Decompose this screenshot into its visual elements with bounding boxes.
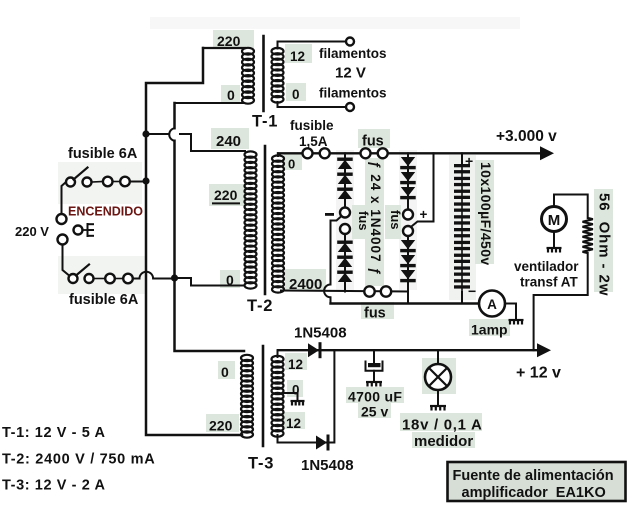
svg-text:220: 220 [209, 418, 233, 434]
wire [115, 278, 123, 280]
lamp 18v 0,1A medidor [425, 364, 451, 390]
ground capacitor 4700uF [366, 382, 382, 387]
fuse fus top terminal 2 [378, 148, 388, 158]
wire to E symbol [83, 229, 88, 231]
diode 1N4007 string right tri y=187 [400, 187, 416, 199]
diode 1N4007 string right tri y=240 [400, 240, 416, 252]
svg-text:T-1: 12 V - 5 A: T-1: 12 V - 5 A [2, 425, 106, 441]
wire T-3 secondary 12 top tap [277, 350, 279, 357]
transformer T-2 primary winding [245, 151, 257, 288]
wire T-1 secondary 0 to filaments [278, 102, 347, 107]
wire T-1 secondary 12 to filaments [278, 42, 347, 49]
svg-text:transf AT: transf AT [520, 275, 579, 290]
arrowhead + 12 v [537, 343, 551, 357]
wire col1 lower [344, 234, 346, 292]
arrowhead +3.000 v [540, 146, 554, 160]
svg-text:240: 240 [216, 133, 241, 150]
wire fuse F1 to bus L [130, 181, 146, 183]
svg-text:18v / 0,1 A: 18v / 0,1 A [402, 417, 483, 434]
svg-text:0: 0 [292, 87, 300, 102]
diode string D2 column (right) [407, 153, 409, 209]
wire T-3 secondary 0 mid tap [284, 393, 298, 401]
ammeter A1 [479, 291, 505, 317]
svg-text:medidor: medidor [414, 433, 473, 450]
wire plus output from col2 fuse to HV rail [412, 153, 434, 226]
svg-text:fus: fus [388, 210, 403, 230]
transformer T-1 primary winding [242, 48, 254, 104]
pilot contact [74, 226, 83, 235]
wire hop over bus L [140, 272, 154, 279]
wire bus N to T-2 primary 0 tap [178, 278, 244, 286]
capacitor bank 10 x 100uF/450v [454, 164, 470, 289]
diode 1N4007 string left bar y=240.5 [337, 241, 353, 253]
diode 1N4007 string left bar y=187.5 [337, 188, 353, 200]
transformer T-1 secondary winding [272, 48, 284, 103]
diode 1N4007 string left bar y=255.5 [337, 256, 353, 268]
svg-text:220: 220 [217, 33, 241, 49]
junction bus L / 240 tap [142, 130, 149, 137]
minus wire hop over 2400 tap wire [324, 285, 330, 298]
fuse F2 terminal 2 [123, 274, 133, 284]
svg-text:+: + [465, 153, 473, 169]
terminal filaments lower [346, 103, 354, 111]
svg-text:fusible: fusible [290, 118, 334, 133]
svg-text:fus: fus [362, 134, 384, 150]
svg-text:M: M [548, 212, 561, 229]
capacitor C1 4700uF 25v electrolytic [368, 363, 381, 367]
transformer T-3 core [262, 346, 265, 446]
wire [92, 181, 104, 184]
fuse 1,5A terminal 2 [320, 148, 330, 158]
ground T-3 mid tap [291, 401, 305, 406]
svg-text:fus: fus [364, 306, 386, 322]
terminal 220V upper [57, 214, 67, 224]
svg-text:12: 12 [288, 357, 303, 372]
svg-text:+ 12 v: + 12 v [516, 365, 561, 382]
fuse F2 terminal 1 [105, 274, 115, 284]
wire motor top / resistor top [554, 195, 588, 219]
bus N upper segment [173, 103, 176, 128]
title box Fuente de alimentacion amplificador EA1KO [448, 462, 626, 501]
svg-text:2400: 2400 [289, 276, 322, 293]
fuse F1 terminal 1 [103, 177, 113, 187]
fuse fus bottom terminal 1 [364, 286, 374, 296]
wire motor to ground [553, 232, 555, 249]
fuse F1 terminal 2 [120, 177, 130, 187]
wire rail to lamp [437, 350, 439, 364]
svg-text:fusible 6A: fusible 6A [68, 146, 138, 162]
wire 240 tap left part [146, 133, 169, 135]
bus N lower segment to T-3 primary top [175, 141, 245, 351]
fuse col1 terminal 1 [340, 208, 350, 218]
fuse col2 terminal 2 [403, 226, 413, 236]
diode 1N4007 string right tri y=270 [400, 270, 416, 282]
wire fuse F2 to hop [133, 278, 140, 280]
wire lower terminal to switch [63, 245, 69, 276]
svg-text:ƒ 24 x 1N4007 ƒ: ƒ 24 x 1N4007 ƒ [368, 161, 383, 276]
svg-text:filamentos: filamentos [319, 46, 387, 61]
svg-text:12: 12 [290, 49, 305, 64]
svg-text:1N5408: 1N5408 [301, 457, 354, 474]
svg-text:0: 0 [288, 157, 295, 172]
diode 1N4007 string right tri y=157 [400, 157, 416, 169]
wire resistor bottom to +12 rail [534, 253, 588, 350]
HV rail +3000 [278, 152, 540, 154]
wire T-3 secondary 12 bottom tap [278, 435, 334, 443]
svg-text:12 V: 12 V [335, 65, 366, 82]
svg-text:fusible 6A: fusible 6A [69, 292, 139, 308]
fuse col2 terminal 1 [403, 210, 413, 220]
svg-text:12: 12 [286, 416, 301, 431]
wire col2 bottom drop to return rail [407, 292, 409, 304]
switch S1a blade [74, 168, 88, 180]
svg-text:T-2: T-2 [247, 297, 273, 315]
svg-text:+3.000 v: +3.000 v [496, 128, 557, 145]
wire [113, 181, 121, 183]
wire T-1 primary 220 tap [203, 47, 245, 49]
switch S1a contact [83, 178, 92, 187]
resistor R1 56 Ohm 2w zigzag [583, 218, 593, 253]
wire capacitor bank bottom to return rail [461, 292, 463, 304]
svg-text:−: − [468, 283, 476, 299]
switch S1a pivot [66, 178, 75, 187]
svg-text:10x100µF/450v: 10x100µF/450v [478, 162, 494, 266]
svg-text:1N5408: 1N5408 [294, 325, 347, 342]
wire HV rail to capacitor bank [461, 153, 463, 164]
svg-text:0: 0 [226, 272, 234, 288]
wire minus output from col1 fuse [331, 217, 342, 285]
transformer T-1 core [262, 36, 265, 111]
fuse fus top terminal 1 [361, 148, 371, 158]
terminal 220V lower [58, 235, 68, 245]
svg-text:T-3: T-3 [248, 455, 274, 473]
wire T-2 secondary top to HV rail [277, 153, 279, 156]
svg-text:0: 0 [221, 364, 229, 380]
wire lamp to ground [437, 390, 439, 406]
svg-text:56 Ohm - 2w: 56 Ohm - 2w [596, 193, 613, 296]
bus L : T-1 220 tap down to T-3 220 tap [146, 48, 242, 435]
diode 1N4007 string left bar y=172.5 [337, 173, 353, 185]
svg-text:ventilador: ventilador [514, 259, 579, 274]
switch S1b contact [85, 274, 94, 283]
label minus sign col1 [325, 213, 334, 216]
svg-text:T-1: T-1 [252, 113, 278, 131]
svg-text:amplificador EA1KO: amplificador EA1KO [462, 485, 606, 501]
wire 240 tap to T-2 primary top [180, 134, 245, 151]
wire minus to HV return rail [330, 297, 332, 303]
svg-text:ENCENDIDO: ENCENDIDO [68, 205, 143, 219]
transformer T-3 secondary winding [272, 356, 284, 437]
rail +12 v [278, 349, 537, 351]
transformer T-2 secondary winding 2400V [272, 155, 284, 292]
junction bus N / fuse 6A lower [171, 274, 178, 281]
junction bus L / fuse 6A upper [142, 177, 149, 184]
fuse col1 terminal 2 [340, 224, 350, 234]
diode D3 1N5408 top [308, 342, 322, 358]
svg-text:4700 uF: 4700 uF [348, 389, 402, 405]
svg-text:Fuente de alimentación: Fuente de alimentación [453, 468, 614, 484]
wire upper terminal to switch [62, 182, 67, 214]
svg-text:0: 0 [292, 383, 300, 398]
diode 1N4007 string left bar y=270.5 [337, 271, 353, 283]
ground HV return [509, 320, 524, 325]
wire ammeter to ground [505, 304, 516, 320]
svg-text:25 v: 25 v [361, 404, 388, 420]
HV return rail to ammeter [331, 302, 480, 304]
terminal filaments upper [346, 38, 354, 46]
diode 1N4007 string right tri y=255 [400, 255, 416, 267]
svg-text:220 V: 220 V [15, 224, 49, 239]
diode 1N4007 string left bar y=157.5 [337, 158, 353, 170]
svg-text:T-2: 2400 V / 750 mA: T-2: 2400 V / 750 mA [2, 452, 155, 468]
fuse fus bottom terminal 2 [381, 286, 391, 296]
ground motor [547, 248, 562, 253]
transformer T-2 core [264, 146, 267, 294]
svg-text:T-3: 12 V - 2 A: T-3: 12 V - 2 A [2, 478, 106, 494]
switch S1b blade [76, 265, 89, 276]
diode 1N4007 string right tri y=172 [400, 172, 416, 184]
svg-text:filamentos: filamentos [319, 86, 387, 101]
switch S1b pivot [69, 274, 78, 283]
motor M fan [542, 207, 567, 232]
earth/plug symbol E [88, 223, 95, 237]
wire capacitor to ground [373, 371, 375, 382]
svg-text:A: A [487, 297, 497, 312]
svg-text:220: 220 [214, 187, 238, 203]
label background boxes [213, 30, 254, 49]
svg-text:1amp: 1amp [471, 322, 508, 338]
wire T-1 primary 0 tap [175, 102, 245, 104]
wire [94, 278, 106, 280]
bus N hop over 240 tap wire [169, 128, 174, 141]
diode string D1 column (left) [344, 153, 346, 207]
wire col2 lower [407, 236, 409, 292]
svg-text:+: + [420, 207, 428, 222]
transformer T-3 primary winding [241, 355, 253, 438]
ground lamp [430, 406, 446, 411]
wire rail to capacitor 4700uF [373, 350, 375, 362]
wire hop to bus N [153, 278, 174, 280]
svg-text:0: 0 [227, 87, 235, 103]
wire T-2 2400 tap / bridge bottom [281, 291, 408, 292]
diode D4 1N5408 bottom [316, 435, 330, 451]
svg-text:1,5A: 1,5A [299, 134, 328, 149]
fuse 1,5A terminal 1 [303, 148, 313, 158]
wire riser from bottom diode [333, 350, 335, 442]
